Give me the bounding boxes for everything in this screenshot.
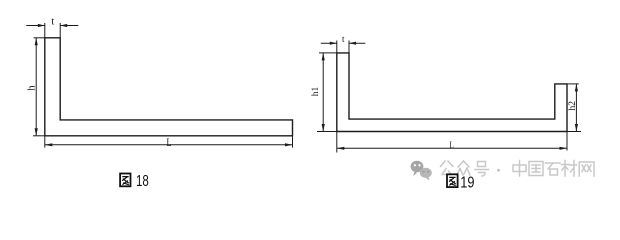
svg-text:h: h <box>26 85 37 91</box>
h2 dimension line (fig19) <box>575 84 577 132</box>
watermark char 号 <box>475 162 489 177</box>
t dimension line right tail (fig19) <box>349 42 365 44</box>
h dimension bottom extension (fig18) <box>33 135 45 137</box>
h2 dimension arrow down (fig19) <box>575 124 578 132</box>
svg-text:t: t <box>342 34 345 44</box>
t dimension line left tail (fig19) <box>321 42 337 44</box>
watermark char 中 <box>513 161 526 177</box>
L dimension left extension (fig18) <box>44 136 46 148</box>
svg-text:h2: h2 <box>568 101 578 111</box>
t dimension extension line left (fig19) <box>336 41 338 53</box>
t dimension extension line right (fig18) <box>59 23 61 38</box>
L dimension line (fig18) <box>45 144 293 146</box>
t dimension extension line left (fig18) <box>44 23 46 38</box>
watermark icon: wechat big bubble <box>411 161 424 176</box>
h1 dimension arrow down (fig19) <box>322 124 325 132</box>
L dimension right extension (fig19) <box>566 132 568 151</box>
h2 dimension top extension (fig19) <box>567 83 579 85</box>
caption 图 glyph (fig19) <box>447 174 458 187</box>
h2 dimension bottom extension (fig19) <box>567 131 581 133</box>
svg-text:L: L <box>167 137 172 149</box>
watermark char 网 <box>579 162 594 176</box>
watermark char 公 <box>441 161 454 175</box>
t dimension line left tail (fig18) <box>26 25 45 27</box>
caption 图 glyph (fig18) <box>120 174 130 187</box>
h1 dimension arrow up (fig19) <box>322 53 325 61</box>
h dimension line (fig18) <box>35 38 37 136</box>
svg-text:18: 18 <box>136 173 149 190</box>
watermark dot separator <box>497 169 500 172</box>
L dimension arrow right (fig19) <box>560 147 568 150</box>
svg-text:19: 19 <box>460 174 474 191</box>
watermark text 公众号 · 中国石材网 <box>441 161 595 177</box>
watermark icon: wechat small bubble <box>420 168 432 181</box>
t dimension arrow left (fig19) <box>330 42 337 45</box>
watermark char 国 <box>529 162 543 176</box>
watermark char 众 <box>457 161 470 175</box>
t dimension line right tail (fig18) <box>60 25 78 27</box>
L dimension line (fig19) <box>337 147 567 149</box>
L dimension left extension (fig19) <box>336 132 338 153</box>
h dimension arrow down (fig18) <box>35 128 38 136</box>
figure 19: channel profile outline <box>337 53 567 132</box>
t dimension extension line right (fig19) <box>348 41 350 53</box>
h1 dimension bottom extension (fig19) <box>317 131 337 133</box>
svg-text:h1: h1 <box>311 87 321 97</box>
watermark char 材 <box>562 161 577 177</box>
t dimension arrow left (fig18) <box>38 24 45 27</box>
L dimension arrow right (fig18) <box>285 143 293 146</box>
t dimension arrow right (fig19) <box>349 42 356 45</box>
h1 dimension top extension (fig19) <box>319 52 337 54</box>
figure 18: L-profile outline <box>45 38 293 136</box>
h2 dimension arrow up (fig19) <box>575 84 578 92</box>
t dimension arrow right (fig18) <box>60 24 67 27</box>
h1 dimension line (fig19) <box>322 53 324 132</box>
watermark char 石 <box>546 163 561 175</box>
h dimension arrow up (fig18) <box>35 38 38 46</box>
h dimension top extension (fig18) <box>34 37 45 39</box>
L dimension arrow left (fig18) <box>45 143 53 146</box>
L dimension arrow left (fig19) <box>337 147 345 150</box>
L dimension right extension (fig18) <box>292 136 294 148</box>
svg-text:L: L <box>449 140 453 150</box>
svg-text:t: t <box>51 17 54 28</box>
